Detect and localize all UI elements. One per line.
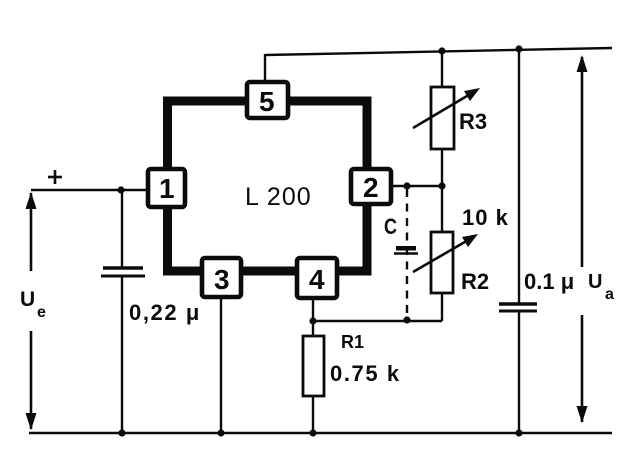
wire pin 4 down to node <box>312 297 314 321</box>
svg-text:a: a <box>605 286 614 303</box>
svg-text:10 k: 10 k <box>462 205 509 230</box>
pin 1 <box>148 169 185 207</box>
node junction dashed C line on feedback wire <box>403 316 410 323</box>
node junction on rail above R3 <box>438 47 445 54</box>
node junction on rail above 0.1u cap <box>515 45 522 52</box>
node Ue measurement arrow upper segment <box>26 192 37 271</box>
resistor R2 body <box>431 232 453 293</box>
node Ue measurement arrow lower segment <box>26 331 37 430</box>
svg-text:0,22 μ: 0,22 μ <box>129 300 201 325</box>
svg-text:C: C <box>384 214 397 239</box>
resistor R2 lower lead <box>441 293 443 321</box>
op-amp U1 L200 regulator body outline <box>168 101 368 271</box>
svg-text:R2: R2 <box>461 269 489 294</box>
svg-text:3: 3 <box>214 264 230 295</box>
pin 3 <box>202 258 241 297</box>
wire feedback node to R2 bottom <box>313 320 442 322</box>
svg-text:5: 5 <box>259 86 275 117</box>
node Ua measurement arrow upper segment <box>577 55 588 267</box>
node junction pin4 / R1 / feedback <box>309 317 316 324</box>
wire dashed line for capacitor C <box>406 189 408 319</box>
node junction ground / 0.1u cap <box>515 429 522 436</box>
svg-text:2: 2 <box>363 172 379 203</box>
wire R3 bottom to R2 top <box>441 149 443 232</box>
node junction ground / R1 <box>309 429 316 436</box>
svg-text:4: 4 <box>309 264 325 295</box>
svg-text:U: U <box>20 288 35 311</box>
node Ue label <box>20 288 46 321</box>
capacitor 0.1u lower lead <box>518 312 520 433</box>
node junction ground / 0.22u cap <box>118 429 125 436</box>
pin 5 <box>247 82 288 118</box>
capacitor 0.22u lower lead <box>121 277 123 433</box>
resistor R3 variable arrow <box>413 88 480 128</box>
capacitor 0.1u upper lead <box>518 49 520 303</box>
node Ua measurement arrow lower segment <box>577 315 588 423</box>
svg-text:0.75 k: 0.75 k <box>330 361 401 386</box>
resistor R2 variable arrow <box>413 234 478 272</box>
pin 2 <box>351 169 391 204</box>
wire pin 3 to ground rail <box>220 297 222 433</box>
capacitor C plates <box>394 246 418 254</box>
svg-text:R3: R3 <box>459 109 487 134</box>
wire input from + terminal to pin 1 <box>31 189 150 191</box>
wire riser from pin 5 to top rail <box>264 54 266 84</box>
pin 4 <box>297 258 337 298</box>
node junction ground / pin 3 wire <box>217 429 224 436</box>
svg-text:R1: R1 <box>341 332 364 352</box>
svg-text:1: 1 <box>159 173 175 204</box>
resistor R3 upper lead <box>441 50 443 87</box>
capacitor 0.1u plates <box>499 304 537 311</box>
wire bottom ground rail <box>29 432 612 434</box>
resistor R1 body <box>303 336 324 396</box>
capacitor 0.22u plates <box>101 268 145 276</box>
resistor R1 upper lead <box>312 321 314 336</box>
capacitor 0.22u upper lead <box>121 190 123 267</box>
resistor R3 body <box>431 87 454 149</box>
node junction pin2 wire / R3-R2 line <box>438 182 445 189</box>
wire pin 2 to R3/R2 branch <box>391 185 443 187</box>
node plus polarity mark <box>48 170 62 184</box>
svg-text:L 200: L 200 <box>245 183 312 211</box>
svg-text:U: U <box>588 271 602 293</box>
resistor R1 lower lead <box>312 396 314 433</box>
node junction pin2 wire / dashed C <box>403 182 410 189</box>
node Ua label <box>588 271 614 303</box>
wire top rail <box>265 48 612 55</box>
node junction input wire / 0.22u cap <box>117 186 124 193</box>
svg-text:e: e <box>37 304 46 321</box>
svg-text:0.1 μ: 0.1 μ <box>524 269 574 294</box>
